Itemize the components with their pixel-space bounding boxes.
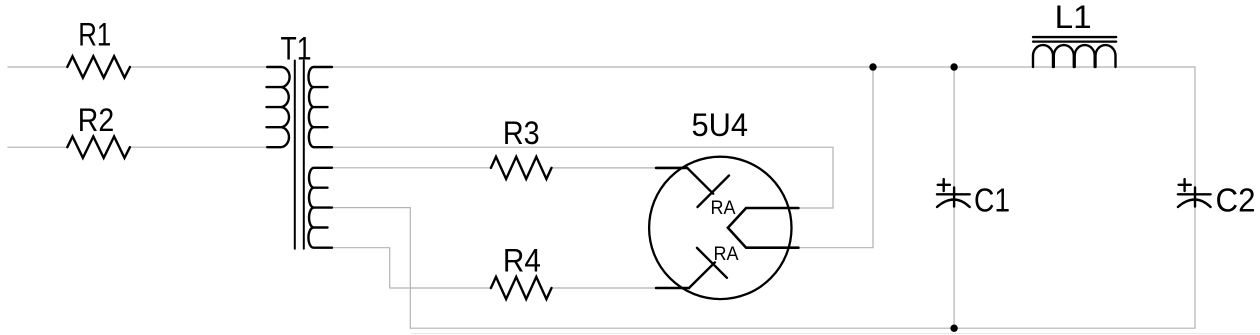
wire [953, 67, 955, 328]
svg-text:RA: RA [714, 244, 739, 265]
junction dot [950, 63, 957, 70]
svg-text:T1: T1 [281, 30, 312, 66]
capacitor C2 [1178, 179, 1211, 207]
svg-text:C2: C2 [1216, 181, 1256, 218]
transformer T1 core [294, 61, 296, 249]
svg-text:RA: RA [711, 198, 736, 219]
wire [1194, 67, 1196, 328]
wire [410, 327, 1195, 329]
wire [798, 67, 873, 248]
svg-text:C1: C1 [974, 181, 1010, 218]
transformer T1 [267, 61, 333, 249]
resistor R3 [491, 157, 552, 179]
tube V1 5U4 envelope [649, 157, 791, 299]
svg-text:L1: L1 [1055, 0, 1092, 35]
tube diode cathode slash upper [698, 176, 730, 208]
transformer T1 secondary winding upper [309, 67, 333, 147]
resistor R1 [67, 56, 130, 77]
svg-text:R4: R4 [503, 242, 541, 278]
tube diode cathode slash lower [697, 248, 727, 278]
wire [332, 208, 410, 329]
wire [332, 66, 1195, 68]
svg-text:5U4: 5U4 [692, 107, 749, 143]
resistor R2 [67, 137, 130, 158]
capacitor C1 [937, 179, 970, 207]
tube diode anode lower [689, 262, 715, 288]
svg-text:R2: R2 [78, 102, 114, 138]
svg-text:R3: R3 [503, 115, 540, 151]
tube pin stub lower-left [656, 287, 689, 290]
wire [332, 248, 491, 288]
wire [331, 147, 834, 208]
resistor R4 [491, 277, 552, 299]
wire [8, 146, 67, 148]
wire [552, 287, 657, 289]
svg-text:R1: R1 [78, 16, 111, 52]
junction dot [869, 63, 876, 70]
tube pin stub upper-left [656, 167, 687, 170]
wire [130, 146, 267, 148]
wire [130, 66, 267, 68]
wire [412, 333, 1260, 335]
wire [332, 167, 491, 169]
transformer T1 secondary winding lower [308, 168, 332, 248]
inductor L1 [1033, 37, 1116, 67]
junction dot [950, 325, 957, 332]
tube filament chevron [728, 208, 799, 248]
wire [552, 167, 657, 169]
transformer T1 primary winding [267, 67, 290, 147]
wire [8, 66, 67, 68]
tube diode anode upper [687, 168, 713, 194]
